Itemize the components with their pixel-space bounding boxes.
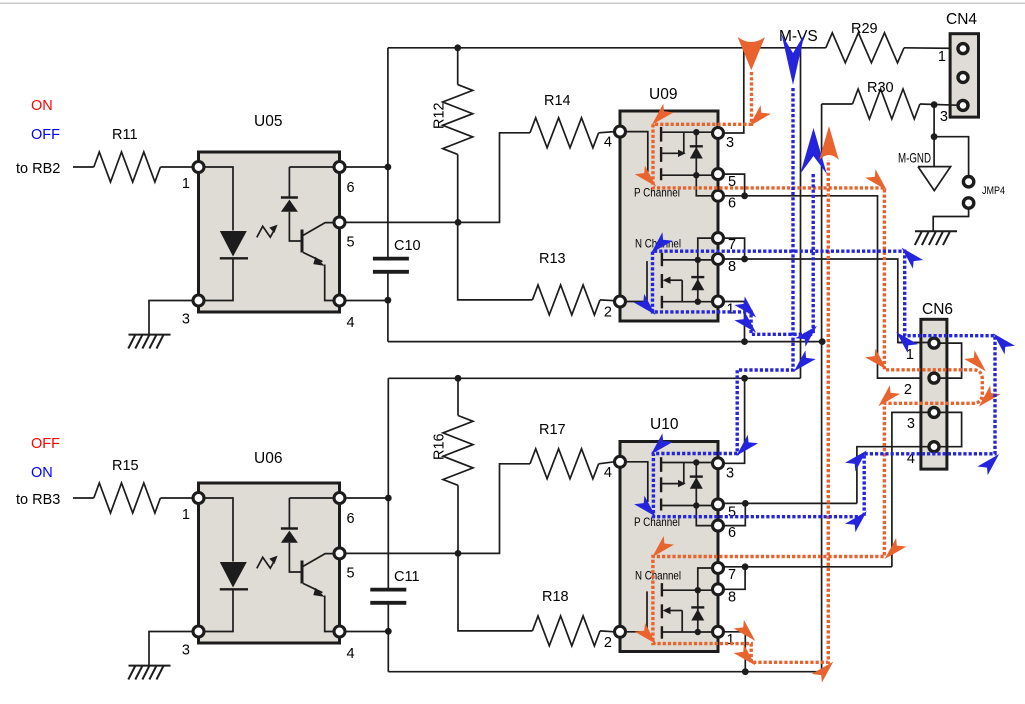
dual MOSFET U10 body bbox=[620, 442, 718, 652]
node R16 top junction bbox=[455, 375, 462, 382]
svg-text:1: 1 bbox=[182, 507, 190, 523]
U10 pin 7 bbox=[713, 563, 724, 574]
U06 internal top wire bbox=[289, 497, 334, 499]
wire U10 pin8 to pin7 tie bbox=[724, 567, 746, 590]
wire U09 pin7 to pin8 tie bbox=[724, 238, 745, 259]
svg-text:4: 4 bbox=[604, 465, 612, 481]
U09 N-channel MOSFET bbox=[625, 261, 647, 301]
U10 pin 5 bbox=[713, 499, 724, 510]
capacitor C11 lower lead bbox=[387, 603, 389, 672]
blue flow arrow at U09 pin1 corner upper bbox=[734, 296, 756, 317]
U10 N-channel MOSFET bbox=[625, 591, 647, 631]
ground below U05 bbox=[129, 334, 171, 336]
U09 pin 1 bbox=[713, 296, 724, 307]
orange flow arrow at U10 N channel exit bbox=[635, 623, 657, 644]
M-GND open triangle symbol bbox=[918, 167, 951, 191]
svg-text:OFF: OFF bbox=[31, 436, 60, 452]
capacitor C11 bbox=[370, 588, 406, 592]
U10 pin 1 bbox=[713, 626, 724, 637]
wire U05 pin5 line to R14 bbox=[345, 133, 530, 223]
U05 internal top wire bbox=[289, 166, 334, 168]
U06 LED bbox=[220, 562, 247, 588]
svg-text:6: 6 bbox=[728, 195, 736, 211]
CN6 pin 4 bbox=[929, 442, 939, 452]
CN6 pin 2 bbox=[929, 373, 939, 383]
svg-text:U05: U05 bbox=[254, 113, 282, 130]
U09 pin 8 bbox=[713, 254, 724, 265]
wire CN6 pin1 left link bbox=[898, 342, 929, 344]
wire R12 to R13 bbox=[458, 222, 533, 300]
U10 N drain to pin7 link bbox=[698, 568, 713, 590]
svg-text:4: 4 bbox=[604, 135, 612, 151]
resistor R14 bbox=[530, 118, 599, 148]
U06 phototransistor bbox=[301, 561, 304, 584]
resistor R18 bbox=[532, 616, 600, 646]
wire source rail top-half bbox=[388, 341, 822, 343]
svg-text:4: 4 bbox=[347, 315, 355, 331]
U09 N drain to pin7 link bbox=[698, 238, 713, 260]
node U10 pins7-8 junction bbox=[742, 563, 749, 570]
top border rule bbox=[0, 2, 1025, 4]
U10 P-channel MOSFET bbox=[625, 462, 648, 502]
svg-text:OFF: OFF bbox=[31, 127, 60, 143]
blue flow arrow leaving CN6 pin1 bbox=[896, 332, 918, 353]
svg-text:2: 2 bbox=[604, 635, 612, 651]
svg-text:R13: R13 bbox=[539, 251, 566, 267]
U05 pin 5 bbox=[334, 217, 345, 228]
U09 pin 4 bbox=[615, 126, 626, 137]
blue flow arrow into U10 pin3 column bbox=[736, 435, 758, 456]
wire R30 left to source column bbox=[822, 103, 853, 105]
svg-text:1: 1 bbox=[727, 632, 735, 648]
U09 pin 6 bbox=[713, 190, 724, 201]
node U06 pin4 / C11 junction bbox=[385, 628, 392, 635]
wire R13 to U09 pin2 bbox=[600, 299, 614, 302]
wire U10 pin3 to M-VS rail bbox=[724, 378, 745, 463]
U05 LED input wiring bbox=[203, 167, 233, 231]
capacitor C10 bbox=[373, 257, 409, 261]
orange flow arrow at CN6 pin3 column corner bbox=[878, 385, 900, 406]
big orange arrow into U09 source branch bbox=[738, 37, 765, 70]
U10 P-channel body diode bbox=[695, 463, 697, 506]
orange flow arrow at U10 pin1 corner upper bbox=[734, 620, 756, 641]
wire RB2 input lead bbox=[73, 166, 94, 168]
wire M-VS rail bottom-half bbox=[388, 377, 800, 379]
U10 pin 6 bbox=[713, 520, 724, 531]
U09 P-channel MOSFET bbox=[625, 132, 648, 172]
svg-text:6: 6 bbox=[347, 511, 355, 527]
U09 P-channel body diode bbox=[695, 132, 697, 175]
U09 pin 7 bbox=[713, 233, 724, 244]
node R30 column on rail bbox=[819, 338, 826, 345]
node U09 pin1 on rail bbox=[741, 338, 748, 345]
resistor R15 bbox=[94, 483, 161, 513]
svg-text:R16: R16 bbox=[432, 433, 448, 460]
svg-text:R15: R15 bbox=[112, 458, 139, 474]
blue flow arrow at CN6 loop bottom right bbox=[977, 454, 999, 475]
wire U05 pin4 to C10 bbox=[345, 300, 388, 302]
svg-text:R11: R11 bbox=[112, 127, 138, 143]
orange flow arrow leaving CN6 pin3 column bbox=[885, 538, 907, 559]
wire M-VS top line bbox=[388, 47, 826, 49]
CN4 pin 3 bbox=[958, 100, 968, 110]
svg-text:3: 3 bbox=[726, 465, 734, 481]
svg-text:R18: R18 bbox=[542, 589, 569, 605]
svg-text:8: 8 bbox=[728, 589, 736, 605]
U10 pin 2 bbox=[615, 626, 626, 637]
orange flow arrow at CN6 loop top right bbox=[964, 350, 986, 371]
capacitor C10 upper lead (M-VS rail drop) bbox=[387, 48, 389, 259]
U09 pin 2 bbox=[615, 296, 626, 307]
orange flow arrow at CN6 pin2 corner bbox=[865, 349, 887, 370]
blue flow arrow toward CN6 pin4 column bbox=[845, 511, 867, 532]
CN6 pin 3 bbox=[929, 407, 939, 417]
blue flow arrow at M-VS rail corner bbox=[794, 350, 816, 371]
node R12 top junction bbox=[454, 44, 461, 51]
svg-text:CN6: CN6 bbox=[922, 301, 953, 318]
U09 pin 3 bbox=[713, 128, 724, 139]
orange flow arrow into U10 N channel bbox=[652, 536, 674, 557]
wire CN6 pin4 left column bbox=[857, 447, 929, 504]
wire U09 pin5 to pin6 tie bbox=[724, 174, 745, 196]
wire U10 pin5 to CN6 pin4 column bbox=[724, 502, 857, 504]
resistor R30 bbox=[853, 89, 920, 119]
U05 phototransistor bbox=[301, 230, 304, 253]
wire U09 pin3 to M-VS top line bbox=[724, 48, 744, 133]
blue current path M-VS through U10 P-FET, CN6 motor, U09 N-FET bbox=[653, 88, 996, 517]
svg-text:CN4: CN4 bbox=[946, 11, 977, 28]
wire U10 pin1 to bottom rail bbox=[724, 632, 746, 672]
svg-text:R29: R29 bbox=[851, 21, 878, 37]
wire R29 to CN4 pin1 bbox=[904, 47, 958, 50]
U06 light arrows bbox=[257, 557, 275, 568]
svg-text:N Channel: N Channel bbox=[635, 568, 681, 582]
CN4 pin 2 bbox=[958, 72, 968, 82]
svg-text:3: 3 bbox=[726, 135, 734, 151]
wire R15 to U06 pin1 bbox=[160, 497, 193, 499]
svg-text:6: 6 bbox=[347, 180, 355, 196]
node U05 pin4 / C10 junction bbox=[385, 297, 392, 304]
connector CN4 bbox=[950, 34, 978, 117]
U05 pin 6 bbox=[334, 162, 345, 173]
U05 pin 1 bbox=[193, 162, 204, 173]
blue flow arrow into U09 N channel bbox=[651, 232, 673, 253]
blue flow arrow at U10 P channel exit bbox=[634, 496, 656, 517]
node U10 pins5-6 junction bbox=[742, 500, 749, 507]
resistor R11 bbox=[94, 152, 161, 182]
svg-text:3: 3 bbox=[940, 109, 948, 125]
U06 pin 5 bbox=[334, 548, 345, 559]
connector CN6 bbox=[921, 319, 947, 469]
U09 P drain to pin6 link bbox=[696, 175, 713, 196]
wire U05 pin3 to ground bbox=[149, 301, 194, 335]
svg-text:U06: U06 bbox=[254, 450, 282, 467]
svg-text:R12: R12 bbox=[432, 102, 448, 129]
svg-text:3: 3 bbox=[182, 312, 190, 328]
svg-text:2: 2 bbox=[604, 305, 612, 321]
node U05 pin6 / M-VS junction bbox=[385, 164, 392, 171]
svg-text:1: 1 bbox=[727, 302, 735, 318]
wire U06 pin4 to C11 bbox=[345, 631, 388, 633]
U05 pin 4 bbox=[334, 295, 345, 306]
wire CN6 pin3 left column bbox=[892, 412, 929, 566]
svg-text:to RB3: to RB3 bbox=[16, 492, 60, 508]
big blue arrow into M-VS bbox=[782, 34, 805, 85]
big blue return arrow near M-GND bbox=[800, 128, 827, 174]
resistor R13 bbox=[532, 285, 600, 315]
svg-text:U10: U10 bbox=[650, 416, 679, 433]
svg-text:ON: ON bbox=[31, 98, 53, 114]
U06 photodiode bbox=[288, 498, 290, 529]
svg-text:M-GND: M-GND bbox=[898, 149, 931, 165]
U06 pin 3 bbox=[193, 626, 204, 637]
U06 pin 1 bbox=[193, 493, 204, 504]
wire R11 to U05 pin1 bbox=[160, 166, 193, 168]
orange flow arrow at U10 pin1 corner lower bbox=[734, 644, 756, 665]
node U09 pins5-6 junction bbox=[741, 192, 748, 199]
wire R18 to U10 pin2 bbox=[600, 630, 614, 633]
wire M-VS vertical drop bbox=[800, 48, 802, 379]
orange flow arrow at U09 pin3 corner bbox=[749, 105, 771, 126]
svg-text:C10: C10 bbox=[394, 238, 421, 254]
jumper JMP4 pad 1 bbox=[963, 177, 973, 187]
U10 P drain to pin6 link bbox=[696, 506, 713, 526]
U09 pin 5 bbox=[713, 169, 724, 180]
blue flow arrow at U09 pin1 corner lower bbox=[734, 312, 756, 333]
U05 pin 3 bbox=[193, 295, 204, 306]
svg-text:1: 1 bbox=[938, 49, 946, 65]
resistor R29 bbox=[826, 33, 904, 63]
U10 pin 4 bbox=[615, 456, 626, 467]
blue flow arrow into U10 P gate region bbox=[651, 433, 673, 454]
resistor R12 bbox=[457, 48, 459, 85]
svg-text:3: 3 bbox=[182, 643, 190, 659]
big orange return arrow near M-GND bbox=[819, 126, 839, 160]
node M-GND junction bbox=[931, 133, 938, 140]
svg-text:R14: R14 bbox=[544, 93, 571, 109]
svg-text:1: 1 bbox=[182, 176, 190, 192]
optocoupler U05 body bbox=[199, 152, 340, 312]
resistor R16 bbox=[443, 416, 473, 486]
ground below U06 bbox=[129, 665, 171, 667]
U05 photodiode bbox=[288, 167, 290, 198]
node U10 pin1 on rail bbox=[742, 668, 749, 675]
svg-text:2: 2 bbox=[904, 382, 912, 398]
wire CN6 pin1-pin2 right loop bbox=[940, 343, 962, 378]
svg-text:R30: R30 bbox=[867, 80, 894, 96]
U10 pin 8 bbox=[713, 584, 724, 595]
svg-text:5: 5 bbox=[347, 565, 355, 581]
wire U10 pin6 to pin5 tie bbox=[724, 503, 746, 525]
orange current path M-VS through U09 P-FET, CN6 motor, U10 N-FET bbox=[653, 72, 982, 662]
svg-text:to RB2: to RB2 bbox=[16, 161, 60, 177]
orange flow arrow toward CN6 pin2 bbox=[865, 169, 887, 190]
svg-text:R17: R17 bbox=[539, 422, 566, 438]
wire R14 to U09 pin4 bbox=[599, 132, 615, 133]
wire RB3 input lead bbox=[73, 497, 94, 499]
U05 light arrows bbox=[257, 226, 275, 237]
blue flow arrow at U09 N channel exit bbox=[634, 294, 656, 315]
svg-text:3: 3 bbox=[907, 416, 915, 432]
wire to M-GND symbol bbox=[933, 137, 935, 166]
blue flow arrow toward U09 pin8 line bbox=[902, 248, 924, 269]
U06 LED input wiring bbox=[203, 498, 233, 562]
CN6 pin 1 bbox=[929, 338, 939, 348]
svg-text:U09: U09 bbox=[649, 86, 677, 103]
orange flow arrow into U09 P gate region bbox=[652, 104, 674, 125]
svg-text:8: 8 bbox=[728, 259, 736, 275]
svg-text:JMP4: JMP4 bbox=[982, 185, 1005, 197]
wire CN4 pin3 down to M-GND node bbox=[933, 105, 935, 137]
wire R16 to R18 bbox=[458, 553, 532, 631]
U06 pin 6 bbox=[334, 493, 345, 504]
dual MOSFET U09 body bbox=[620, 111, 718, 321]
wire R30 to CN4 pin3 bbox=[920, 104, 957, 105]
svg-text:7: 7 bbox=[728, 567, 736, 583]
wire U06 pin5 line to R17 bbox=[345, 464, 530, 554]
wire source rail bottom-half bbox=[388, 671, 822, 673]
blue flow arrow at CN6 loop top right bbox=[993, 333, 1015, 354]
optocoupler U06 body bbox=[199, 483, 340, 643]
blue flow arrow at return column bbox=[795, 326, 817, 347]
wire U06 pin6 to M-VS rail bbox=[345, 497, 388, 499]
wire source/sense column (R30 to bottom rail) bbox=[821, 104, 823, 672]
U10 pin 3 bbox=[713, 458, 724, 469]
ground below JMP4 bbox=[915, 230, 957, 232]
wire U09 pin6 to CN6 pin2 bbox=[724, 196, 929, 378]
svg-text:ON: ON bbox=[31, 465, 53, 481]
svg-text:C11: C11 bbox=[394, 569, 420, 585]
capacitor C10 lower lead bbox=[387, 272, 389, 342]
capacitor C11 upper lead bbox=[387, 378, 389, 589]
resistor R17 bbox=[530, 449, 599, 479]
orange flow arrow at CN6 loop bottom right bbox=[979, 386, 1001, 407]
wire M-GND node to JMP4 bbox=[934, 137, 969, 177]
orange flow arrow at bottom rail return corner bbox=[812, 662, 834, 683]
node U10 pin3 on M-VS rail bbox=[741, 375, 748, 382]
CN4 pin 1 bbox=[958, 44, 968, 54]
wire JMP4 to ground bbox=[933, 208, 968, 231]
wire U10 pin7 to CN6 pin3 column bbox=[724, 566, 892, 568]
orange flow arrow at U09 P channel exit bbox=[635, 166, 657, 187]
node R16 bottom junction bbox=[455, 550, 462, 557]
U05 LED bbox=[220, 231, 247, 257]
wire U06 pin3 to ground bbox=[149, 632, 194, 666]
U06 pin 4 bbox=[334, 626, 345, 637]
node U09 pins7-8 junction bbox=[741, 256, 748, 263]
svg-text:5: 5 bbox=[347, 234, 355, 250]
wire U05 pin6 to M-VS node bbox=[345, 166, 388, 168]
svg-text:4: 4 bbox=[347, 646, 355, 662]
blue flow arrow at CN6 pin4 corner bbox=[845, 450, 867, 471]
wire U09 pin1 to source rail bbox=[724, 302, 745, 342]
U09 N-channel body diode bbox=[697, 260, 699, 302]
wire R17 to U10 pin4 bbox=[599, 462, 615, 464]
wire CN6 pin3-pin4 right loop bbox=[940, 412, 962, 446]
wire U09 pin8 to CN6 pin1 bbox=[724, 259, 929, 343]
node R12 bottom junction bbox=[455, 219, 462, 226]
jumper JMP4 pad 2 bbox=[963, 198, 973, 208]
node U06 pin6 / C11 junction bbox=[385, 495, 392, 502]
U10 N-channel body diode bbox=[697, 590, 699, 632]
svg-text:6: 6 bbox=[728, 525, 736, 541]
node R30/CN4 junction bbox=[931, 101, 938, 108]
